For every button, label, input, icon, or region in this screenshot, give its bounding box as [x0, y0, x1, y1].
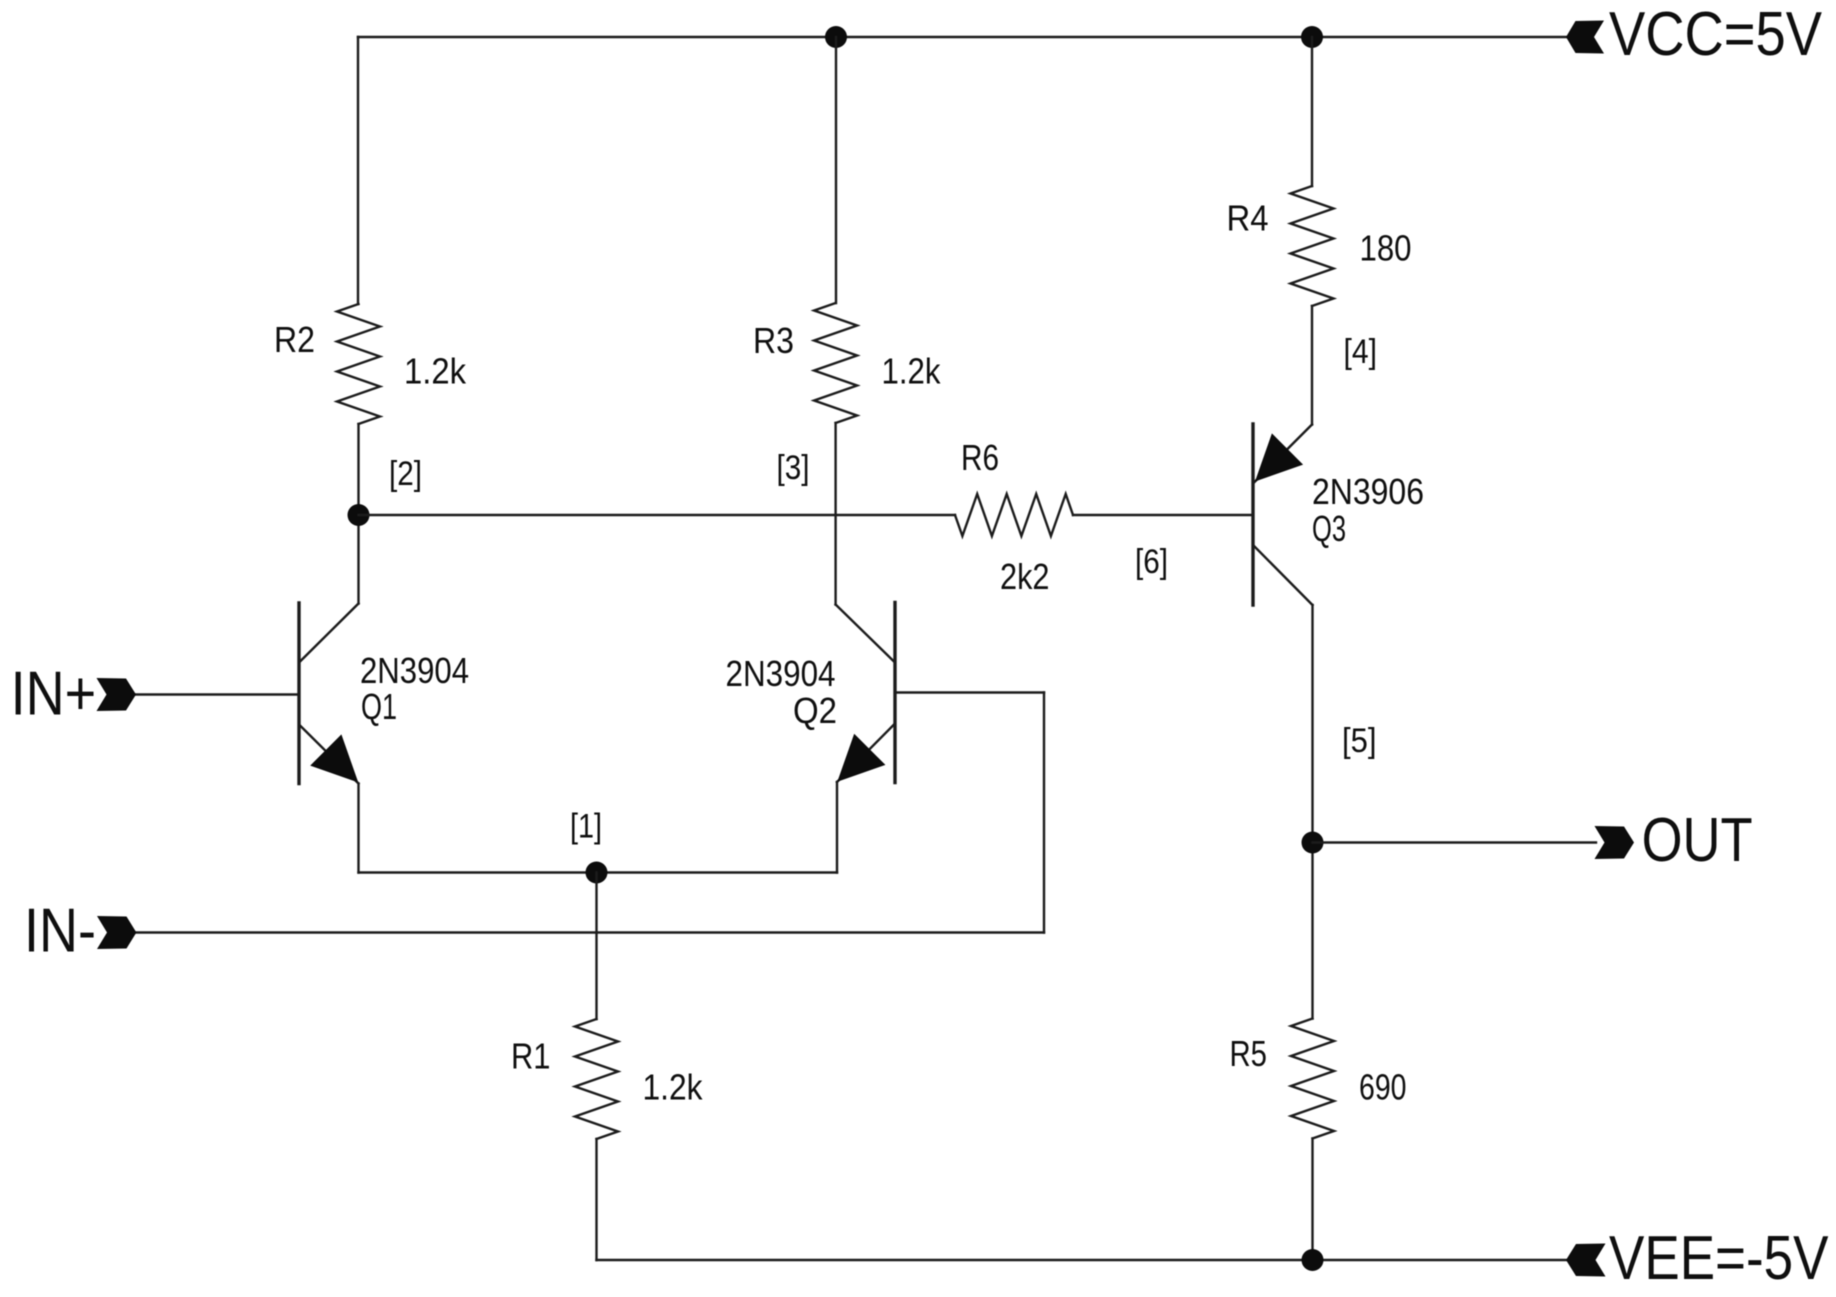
- OUT port flag: [1595, 826, 1635, 859]
- VEE port flag: [1566, 1244, 1606, 1277]
- wire R2 top lead: [357, 37, 359, 304]
- svg-text:OUT: OUT: [1642, 806, 1753, 875]
- wire Q1 emitter down: [357, 784, 359, 873]
- IN- port flag: [97, 916, 136, 949]
- svg-text:Q3: Q3: [1312, 508, 1346, 549]
- transistor Q1 base bar: [297, 603, 300, 784]
- transistor Q2 collector diagonal: [836, 605, 895, 663]
- VCC port flag: [1566, 21, 1604, 54]
- wire R5 bottom lead: [1311, 1139, 1313, 1261]
- transistor Q2 emitter arrow: [837, 734, 885, 782]
- wire R1 bottom lead: [595, 1139, 597, 1260]
- wire Q2 base to IN- riser: [895, 691, 1044, 693]
- svg-text:2N3904: 2N3904: [360, 650, 469, 691]
- svg-text:690: 690: [1359, 1067, 1407, 1108]
- svg-text:Q2: Q2: [793, 690, 837, 731]
- transistor Q1 emitter arrow: [310, 734, 358, 782]
- wire node1 to R1 (crosses IN- wire, no dot): [595, 873, 597, 1020]
- wire R4 top lead: [1311, 37, 1313, 186]
- resistor R5: [1291, 1019, 1334, 1139]
- svg-text:R3: R3: [753, 320, 794, 361]
- svg-text:R1: R1: [511, 1036, 551, 1077]
- svg-text:IN+: IN+: [11, 660, 97, 729]
- svg-text:[2]: [2]: [389, 455, 422, 493]
- wire R2 bottom lead to Q1 collector: [357, 424, 359, 604]
- wire R3 bottom lead to Q2 collector (crosses node2 wire, no dot): [834, 423, 836, 605]
- node [2] junction dot: [348, 504, 370, 526]
- svg-text:[1]: [1]: [570, 808, 602, 846]
- svg-text:[6]: [6]: [1135, 543, 1168, 581]
- node [1] junction dot: [586, 862, 608, 884]
- transistor Q3 emitter arrow (PNP): [1255, 433, 1303, 481]
- wire VCC top bus: [358, 36, 1566, 38]
- transistor Q3 base bar: [1251, 424, 1254, 605]
- wire IN-: [136, 931, 1044, 933]
- node [5] junction dot: [1302, 832, 1324, 854]
- svg-text:1.2k: 1.2k: [882, 351, 942, 392]
- resistor R3: [814, 303, 857, 423]
- wire R6 to Q3 base: [1073, 514, 1253, 516]
- svg-text:R4: R4: [1227, 198, 1269, 239]
- resistor R1: [575, 1019, 618, 1139]
- wire R4 bottom lead node [4]: [1311, 306, 1313, 425]
- svg-text:180: 180: [1360, 228, 1412, 269]
- transistor Q3 emitter diagonal: [1254, 425, 1312, 483]
- node junction dot top R3: [825, 26, 847, 48]
- transistor Q1 collector diagonal: [300, 604, 359, 662]
- wire IN+ to Q1 base: [136, 693, 299, 695]
- wire VEE bottom bus: [597, 1259, 1569, 1261]
- svg-text:2N3904: 2N3904: [726, 653, 836, 694]
- svg-text:2N3906: 2N3906: [1312, 471, 1424, 512]
- wire Q3 collector down to R5: [1311, 605, 1313, 1019]
- svg-text:Q1: Q1: [361, 686, 397, 727]
- resistor R2: [337, 304, 380, 424]
- node junction dot top R4: [1301, 26, 1323, 48]
- svg-text:1.2k: 1.2k: [404, 351, 467, 392]
- svg-text:2k2: 2k2: [1000, 556, 1050, 597]
- svg-text:1.2k: 1.2k: [643, 1067, 704, 1108]
- resistor R4: [1291, 186, 1334, 306]
- svg-text:R6: R6: [961, 437, 999, 478]
- transistor Q3 collector diagonal: [1254, 546, 1313, 605]
- wire emitter bus: [359, 871, 838, 873]
- svg-text:IN-: IN-: [24, 897, 96, 966]
- transistor Q2 base bar: [893, 603, 896, 783]
- wire R3 top lead: [835, 37, 837, 303]
- svg-text:[4]: [4]: [1344, 333, 1378, 371]
- svg-text:VCC=5V: VCC=5V: [1609, 0, 1823, 69]
- wire OUT: [1313, 841, 1597, 843]
- svg-text:VEE=-5V: VEE=-5V: [1609, 1224, 1829, 1293]
- svg-text:[5]: [5]: [1342, 722, 1377, 760]
- IN+ port flag: [97, 678, 137, 711]
- wire Q2 emitter down: [836, 782, 838, 873]
- wire node 2 to R6: [359, 514, 956, 516]
- svg-text:R2: R2: [274, 319, 315, 360]
- svg-text:R5: R5: [1230, 1033, 1268, 1074]
- node junction dot VEE: [1302, 1249, 1324, 1271]
- svg-text:[3]: [3]: [777, 449, 810, 487]
- wire IN- riser: [1043, 693, 1045, 933]
- resistor R6: [955, 494, 1073, 536]
- transistor Q2 emitter diagonal: [837, 724, 895, 782]
- transistor Q1 emitter diagonal: [300, 726, 359, 784]
